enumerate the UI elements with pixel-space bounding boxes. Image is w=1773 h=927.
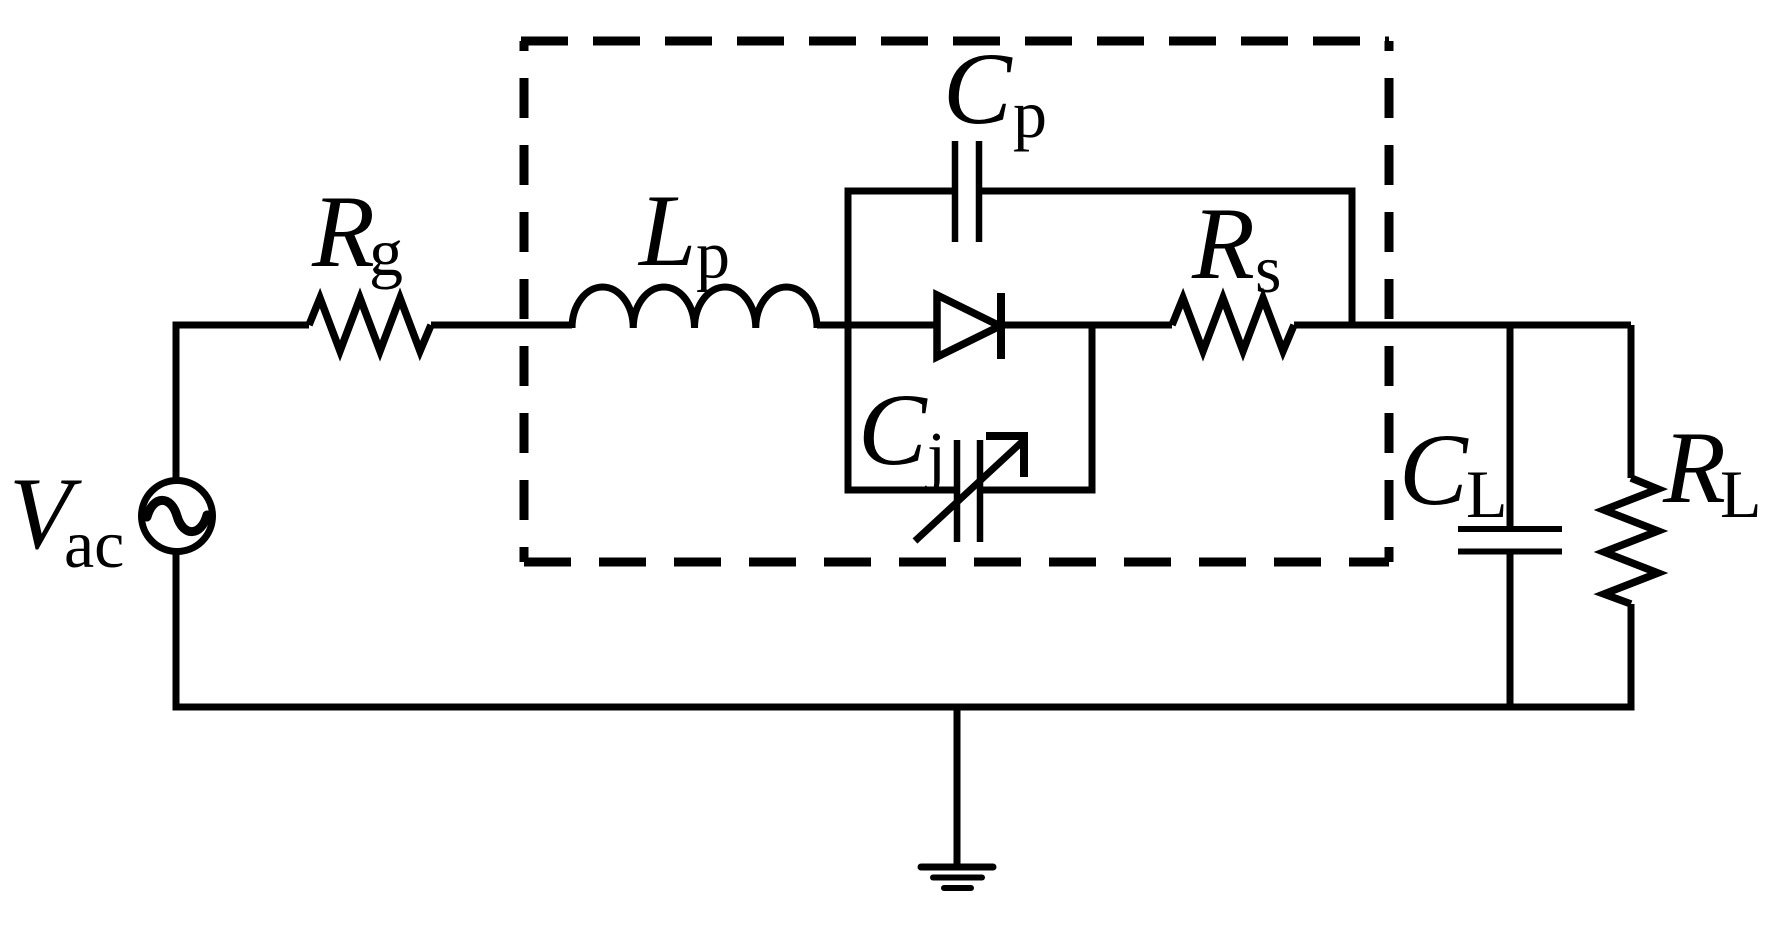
capacitor Cp left plate	[952, 141, 959, 242]
wire: Rg to Lp	[431, 322, 572, 329]
dashed box top edge	[521, 37, 1389, 46]
capacitor CL bottom plate	[1458, 549, 1562, 555]
svg-text:j: j	[925, 418, 946, 494]
svg-text:C: C	[943, 32, 1013, 146]
svg-text:R: R	[1191, 187, 1255, 301]
wire: CL bottom lead	[1507, 554, 1514, 707]
resistor Rs	[1172, 298, 1294, 351]
wire: Cp branch left + left riser + Cj bottom left	[848, 191, 954, 490]
dashed box bottom edge	[524, 558, 1389, 567]
svg-text:L: L	[637, 174, 696, 288]
wire: right branch top (to RL)	[1628, 325, 1635, 478]
wire: source top lead and top-left segment	[176, 325, 309, 481]
svg-text:ac: ac	[64, 506, 124, 582]
svg-text:p: p	[1013, 76, 1047, 152]
wire: source bottom lead + bottom rail + RL bottom lead	[176, 552, 1631, 707]
wire: Rs to right node	[1294, 322, 1631, 329]
resistor Rg	[309, 298, 431, 351]
svg-text:L: L	[1720, 456, 1762, 532]
diode cathode bar	[997, 293, 1005, 359]
capacitor Cj right plate	[977, 440, 984, 542]
diode (varactor) triangle	[937, 295, 1000, 357]
svg-text:C: C	[858, 373, 928, 487]
dashed box left edge	[520, 41, 529, 562]
inductor Lp	[572, 287, 817, 328]
ground bar 3	[944, 885, 971, 891]
svg-text:R: R	[311, 175, 375, 289]
ground stem	[954, 707, 961, 866]
ground bar 2	[933, 875, 982, 881]
resistor RL	[1604, 478, 1658, 604]
svg-text:L: L	[1466, 456, 1508, 532]
wire: Cj box right vertical + bottom right	[983, 325, 1092, 490]
ground bar 1	[921, 864, 993, 871]
variable capacitor arrow diagonal	[915, 440, 1024, 541]
svg-text:s: s	[1255, 231, 1281, 307]
capacitor CL top plate	[1458, 526, 1562, 532]
wire: Lp to diode	[817, 322, 937, 329]
wire: CL top lead	[1507, 325, 1514, 526]
variable capacitor arrow head	[986, 436, 1028, 477]
capacitor Cp right plate	[976, 141, 983, 242]
wire: Cp branch right	[982, 191, 1352, 325]
source Vac sine wave	[147, 500, 207, 531]
dashed box right edge	[1385, 41, 1394, 562]
svg-text:C: C	[1399, 413, 1469, 527]
svg-text:p: p	[696, 217, 730, 293]
source Vac circle	[142, 481, 213, 552]
svg-text:R: R	[1662, 411, 1726, 525]
wire: diode to Rs	[1001, 322, 1172, 329]
svg-text:g: g	[369, 214, 403, 290]
capacitor Cj left plate	[954, 440, 961, 542]
